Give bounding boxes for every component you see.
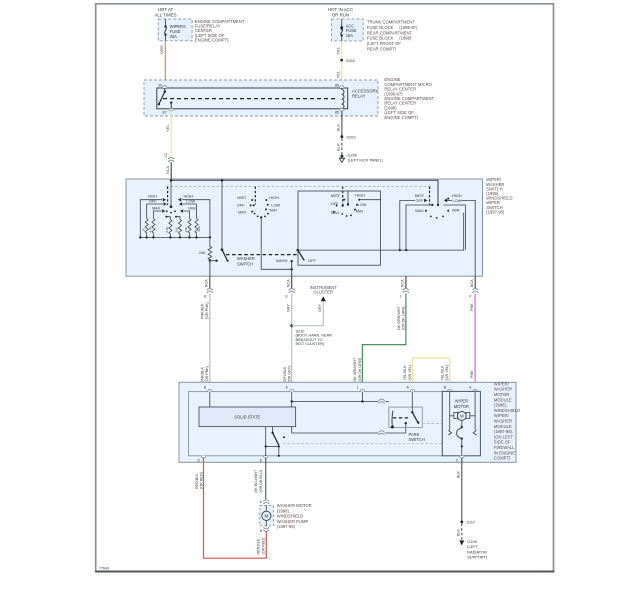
svg-text:OFF: OFF: [308, 258, 316, 263]
motor commutator and park contacts: [448, 420, 476, 456]
svg-text:G108: G108: [467, 539, 477, 544]
wire to wiper switch: [166, 162, 171, 180]
wafer 1 position arrows/dots: [162, 198, 183, 218]
svg-text:(1997-98): (1997-98): [486, 209, 505, 214]
svg-text:MODULE: MODULE: [494, 424, 512, 429]
fuse ACC FUSE 15A: [340, 19, 357, 41]
wire BLK dashed to ground G108: [457, 524, 462, 540]
pin 86 (top right): [335, 83, 344, 88]
switch wafer 1: resistor network: [140, 180, 210, 237]
svg-text:YEL/BLK: YEL/BLK: [440, 365, 444, 381]
svg-text:ENGINE COMPT): ENGINE COMPT): [384, 115, 418, 120]
wire GRY branch to instrument cluster: [292, 285, 338, 326]
relay coil: [342, 88, 344, 109]
pin 30 (top left): [158, 83, 167, 88]
resistor ladder R1..R6: [145, 219, 198, 238]
svg-text:RADIATOR: RADIATOR: [467, 549, 487, 554]
svg-text:INST CLUSTER): INST CLUSTER): [296, 342, 325, 346]
wafer 2 common feed to washer contact: [261, 217, 292, 269]
wire BLK motor ground: [457, 458, 462, 521]
svg-text:NCA: NCA: [204, 279, 208, 287]
svg-text:16K: 16K: [175, 227, 179, 232]
washer motor/pump: [260, 503, 312, 529]
fuse WIPERS FUSE 30A: [164, 19, 186, 40]
svg-text:WASHER: WASHER: [494, 419, 512, 424]
wire BLK relay coil ground side: [336, 111, 342, 136]
svg-text:(OR DK BLU): (OR DK BLU): [259, 470, 263, 492]
svg-text:86: 86: [335, 83, 339, 87]
splice S117: [460, 520, 475, 525]
wire PNK to module: [470, 293, 475, 391]
svg-text:MIST: MIST: [237, 195, 247, 200]
pin letters on module top: [204, 386, 472, 390]
svg-text:L: L: [400, 295, 402, 299]
run/park relay blade under solid state: [271, 432, 285, 446]
svg-text:PNK/BLK: PNK/BLK: [200, 303, 204, 319]
solid state box: [199, 407, 296, 427]
switch wafer 3 frame: [298, 191, 381, 265]
svg-text:30A: 30A: [170, 34, 178, 39]
svg-text:MODULE: MODULE: [494, 397, 512, 402]
svg-text:YEL: YEL: [335, 70, 340, 78]
svg-text:33K: 33K: [184, 227, 188, 232]
svg-text:YEL: YEL: [165, 124, 170, 132]
svg-text:OR RUN: OR RUN: [332, 13, 349, 18]
svg-text:ENGINE COMPT): ENGINE COMPT): [195, 37, 229, 42]
svg-text:NCA: NCA: [166, 166, 170, 174]
svg-text:NCA: NCA: [470, 279, 474, 287]
svg-text:WASHER: WASHER: [494, 387, 512, 392]
svg-text:(1996),: (1996),: [277, 508, 290, 513]
svg-text:NCA: NCA: [401, 279, 405, 287]
relay switch contacts: [158, 88, 173, 109]
node HOT IN ACC OR RUN: [328, 7, 353, 18]
inline connector symbols inside module: [378, 399, 385, 436]
svg-text:WIPER/: WIPER/: [494, 381, 510, 386]
wire stub exit 3: [401, 276, 406, 288]
wire stub exit 2: [286, 276, 291, 288]
connector inline 3: [400, 288, 409, 298]
wafer 4 labels: [415, 193, 462, 213]
svg-text:REAR COMPT): REAR COMPT): [367, 47, 397, 52]
svg-text:WASHER MOTOR: WASHER MOTOR: [277, 503, 312, 508]
svg-text:IN ENGINE: IN ENGINE: [494, 450, 516, 455]
ground G200: [339, 153, 384, 163]
connector C2 inline: [164, 153, 175, 162]
common bus of wafers 3/4: [298, 213, 464, 252]
module inner circuit frame: [189, 392, 443, 456]
svg-text:77640: 77640: [99, 567, 109, 571]
park switch contacts: [391, 392, 419, 429]
LOW line: [183, 204, 197, 219]
svg-text:M: M: [460, 414, 464, 419]
module internal wiring left: [210, 392, 406, 456]
svg-text:RELAY: RELAY: [352, 93, 366, 98]
svg-text:DK BLU/WHT: DK BLU/WHT: [254, 469, 258, 492]
svg-text:DK GRN/WHT: DK GRN/WHT: [353, 357, 357, 382]
wafer 3 labels: [331, 192, 367, 215]
svg-text:F: F: [469, 295, 471, 299]
svg-text:(OR GRY): (OR GRY): [288, 366, 292, 383]
svg-text:WASHER: WASHER: [237, 256, 255, 261]
svg-text:BLK: BLK: [336, 124, 341, 132]
svg-text:FUSE BLOCK (1998): FUSE BLOCK (1998): [367, 36, 412, 41]
wiper/washer motor module box: [179, 381, 520, 462]
svg-text:REAR COMPARTMENT: REAR COMPARTMENT: [367, 30, 413, 35]
wire YEL from ACC fuse to relay coil: [335, 41, 341, 87]
svg-text:(OR RED): (OR RED): [200, 472, 204, 489]
svg-text:HIGH: HIGH: [269, 195, 279, 200]
svg-text:OFF: OFF: [237, 202, 245, 207]
washer switch blade 1: [221, 180, 229, 262]
svg-text:WASHER PUMP: WASHER PUMP: [277, 519, 309, 524]
svg-text:GRY: GRY: [287, 304, 291, 312]
svg-text:S203: S203: [346, 134, 355, 139]
svg-text:1K: 1K: [141, 228, 145, 232]
svg-text:HOT IN ACC: HOT IN ACC: [328, 7, 353, 12]
svg-text:85: 85: [335, 111, 339, 115]
motor M symbol: [450, 392, 475, 431]
svg-text:(LEFT: (LEFT: [467, 544, 478, 549]
svg-text:CLUSTER: CLUSTER: [314, 290, 334, 295]
MAX line: [153, 211, 161, 219]
wire RED/BLK loop to washer pump: [195, 458, 266, 558]
wire GRY to splice S210: [283, 293, 292, 391]
svg-text:(OR RED): (OR RED): [261, 538, 265, 555]
svg-text:ALL TIMES: ALL TIMES: [154, 13, 176, 18]
wire ORG from fuse to relay pin 30: [159, 41, 165, 87]
washer pump connector pins: [260, 500, 270, 534]
svg-text:LOW: LOW: [186, 199, 195, 204]
svg-text:(1997-98): (1997-98): [277, 524, 296, 529]
mechanical drop links: [167, 187, 169, 205]
fuse block: engine compartment fuse/relay center: [158, 19, 245, 42]
svg-text:62K: 62K: [197, 226, 201, 231]
svg-text:(1996),: (1996),: [494, 403, 507, 408]
svg-text:RED/BLK: RED/BLK: [195, 473, 199, 489]
wafer 4 contacts: [424, 198, 449, 219]
wire DK GRN/WHT to module: [353, 293, 406, 391]
svg-text:FUSE BLOCK (1996-97): FUSE BLOCK (1996-97): [367, 25, 418, 30]
relay: accessory relay box: [157, 88, 379, 109]
svg-text:MIST: MIST: [331, 193, 341, 198]
svg-text:SUPPORT): SUPPORT): [467, 555, 488, 560]
svg-text:PNK: PNK: [470, 370, 474, 378]
splice S402: [340, 58, 355, 63]
svg-text:(OR PNK): (OR PNK): [205, 366, 209, 383]
svg-text:WIPER/: WIPER/: [494, 413, 510, 418]
svg-text:MIN: MIN: [452, 208, 459, 213]
svg-text:GRY/BLK: GRY/BLK: [283, 366, 287, 382]
svg-text:(OR PNK): (OR PNK): [205, 302, 209, 319]
wiper motor box: [442, 391, 480, 455]
svg-text:PNK: PNK: [470, 303, 474, 311]
mechanical gang bus (dashed): [166, 186, 433, 188]
OFF line: [147, 204, 163, 219]
pin 87 (bottom left): [163, 109, 174, 115]
svg-text:HIGH: HIGH: [355, 192, 365, 197]
wire BLK dashed to ground: [336, 138, 342, 155]
supply bus inside switch: [170, 179, 440, 206]
inner contact stubs: [166, 217, 170, 220]
svg-text:C2: C2: [164, 153, 168, 158]
svg-text:HOT AT: HOT AT: [158, 7, 174, 12]
svg-text:MOTOR: MOTOR: [454, 404, 469, 409]
wire stub exit 4: [470, 276, 475, 288]
wiper/washer switch box: [126, 177, 512, 276]
park switch box: [389, 407, 425, 442]
module bottom pins: [197, 456, 464, 463]
relay mechanical link (dashed): [163, 98, 338, 100]
wafer 3 contacts: [333, 199, 360, 217]
svg-text:SWITCH: SWITCH: [409, 437, 425, 442]
svg-text:PNK/BLK: PNK/BLK: [200, 366, 204, 382]
svg-text:DK GRN/WHT: DK GRN/WHT: [397, 305, 401, 330]
svg-text:MOTOR: MOTOR: [494, 392, 510, 397]
svg-text:MIN: MIN: [270, 207, 277, 212]
resistor value labels: [141, 226, 201, 232]
svg-text:(ON LEFT: (ON LEFT: [494, 434, 514, 439]
resistor 24K to washer contact: [199, 237, 218, 276]
svg-text:(OR YEL): (OR YEL): [408, 365, 412, 381]
svg-text:(OR YEL): (OR YEL): [445, 365, 449, 381]
svg-text:OFF: OFF: [416, 198, 424, 203]
svg-text:LOW: LOW: [453, 198, 462, 203]
svg-text:RED/BLK: RED/BLK: [257, 538, 261, 554]
svg-text:L: L: [357, 386, 359, 390]
pin bumps on module top: [208, 389, 478, 391]
switch wafer 2: [237, 195, 281, 215]
pin 85 (bottom right): [335, 109, 344, 115]
svg-text:WIPER: WIPER: [455, 399, 468, 404]
svg-text:MAX: MAX: [415, 208, 424, 213]
svg-text:S402: S402: [346, 58, 355, 63]
svg-text:(LEFT FRONT OF: (LEFT FRONT OF: [367, 41, 401, 46]
center feed: [170, 180, 172, 206]
svg-text:MIN: MIN: [188, 206, 195, 211]
wire stub exit 1: [204, 276, 209, 288]
svg-text:M: M: [264, 514, 268, 519]
svg-text:S117: S117: [466, 520, 475, 525]
svg-text:WINDSHIELD: WINDSHIELD: [494, 408, 520, 413]
WASH contact: [276, 258, 293, 276]
wire PNK/BLK to module: [200, 293, 209, 391]
fuse block: trunk/rear compartment fuse block: [332, 19, 419, 52]
svg-text:BLK: BLK: [457, 528, 461, 536]
mechanical links to motor (dashed): [422, 423, 447, 425]
svg-text:NCA: NCA: [286, 279, 290, 287]
svg-text:2.4K: 2.4K: [148, 226, 152, 232]
svg-text:WASH: WASH: [276, 258, 288, 263]
border frame: [96, 4, 554, 572]
svg-text:FIREWALL: FIREWALL: [494, 445, 515, 450]
splice S203: [341, 134, 356, 139]
svg-text:MAX: MAX: [152, 206, 161, 211]
svg-text:MAX: MAX: [238, 210, 247, 215]
svg-text:(OR DK GRN): (OR DK GRN): [402, 307, 406, 330]
connector inline 2: [286, 288, 296, 298]
svg-text:(LEFT KICK PANEL): (LEFT KICK PANEL): [348, 157, 384, 162]
wire DK BLU/WHT to washer pump: [254, 458, 266, 499]
svg-text:(1997-98).: (1997-98).: [494, 429, 513, 434]
svg-text:(OR DK GRN): (OR DK GRN): [358, 358, 362, 381]
svg-text:LOW: LOW: [358, 202, 367, 207]
svg-text:TRUNK COMPARTMENT: TRUNK COMPARTMENT: [367, 20, 415, 25]
svg-text:30: 30: [158, 83, 162, 87]
svg-text:8.2K: 8.2K: [165, 226, 169, 232]
svg-text:OFF: OFF: [149, 199, 157, 204]
svg-text:WINDSHIELD: WINDSHIELD: [277, 514, 303, 519]
relay center dashed enclosure: [144, 77, 434, 120]
label washer switch: [237, 256, 255, 266]
HIGH line + right rail: [182, 200, 210, 238]
svg-text:MAX: MAX: [331, 210, 340, 215]
wire YEL/BLK jumper loop: [403, 358, 450, 392]
splice S210: [290, 324, 332, 346]
svg-text:SOLID STATE: SOLID STATE: [234, 415, 260, 420]
svg-text:24K: 24K: [199, 251, 206, 255]
ground G108: [459, 539, 488, 560]
wafer 1 labels: [148, 194, 195, 211]
svg-text:MIN: MIN: [356, 209, 363, 214]
washer mechanical link dashed: [226, 254, 299, 256]
MIN line: [184, 211, 190, 219]
svg-text:SIDE OF: SIDE OF: [494, 440, 511, 445]
node HOT AT ALL TIMES: [154, 7, 176, 18]
svg-text:15A: 15A: [346, 33, 354, 38]
svg-text:BLK: BLK: [336, 143, 341, 151]
svg-text:SWITCH: SWITCH: [237, 262, 253, 267]
svg-text:YEL/BLK: YEL/BLK: [403, 365, 407, 381]
connector inline 4: [469, 288, 478, 298]
svg-text:GRY: GRY: [318, 304, 322, 312]
bus junction dots: [139, 236, 211, 238]
svg-text:BLK: BLK: [457, 470, 461, 478]
svg-text:COMPT): COMPT): [494, 456, 511, 461]
svg-text:OFF: OFF: [331, 201, 339, 206]
MIST line + left rail: [140, 200, 162, 238]
washer switch blade 2 (OFF): [297, 249, 317, 263]
svg-text:PARK: PARK: [409, 432, 420, 437]
svg-text:YEL: YEL: [335, 46, 340, 54]
connector inline 1: [204, 288, 214, 298]
switch wafer 4 frame: [400, 200, 475, 276]
svg-text:87: 87: [163, 111, 167, 115]
bottom bus: [140, 236, 210, 238]
svg-text:ORG: ORG: [159, 45, 164, 54]
wire YEL relay output: [165, 111, 171, 158]
